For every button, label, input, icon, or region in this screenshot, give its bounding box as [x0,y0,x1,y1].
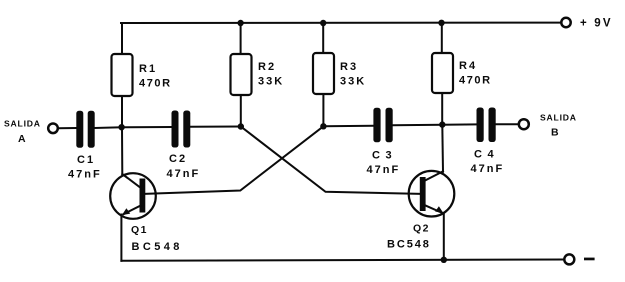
svg-text:C2: C2 [169,153,187,165]
wire Q2 emitter to ground rail [443,213,445,260]
svg-text:470R: 470R [459,75,492,87]
svg-text:R1: R1 [139,63,157,75]
svg-text:C4: C4 [474,149,499,161]
capacitor C2 [172,111,191,148]
svg-text:SALIDA: SALIDA [4,118,41,128]
terminal minus [564,254,574,264]
wire R1 bottom [121,96,123,128]
wire cross-coupling R2 to Q2 base [241,127,420,194]
wire R3 node to C3 [323,125,373,128]
svg-text:33K: 33K [340,76,366,88]
node R2/C2 junction [238,123,244,129]
wire R1 top [121,23,123,55]
svg-text:BC548: BC548 [132,241,183,253]
wire R2 top [240,23,242,55]
wire R4 bottom [441,93,443,125]
svg-text:B: B [551,127,559,139]
wire R2 bottom [240,95,242,127]
svg-text:C1: C1 [77,154,95,166]
resistor R4 [432,53,453,93]
svg-text:BC548: BC548 [387,239,431,251]
transistor Q1 [110,173,156,219]
svg-text:470R: 470R [139,78,172,90]
wire junction to C2 [122,126,172,128]
svg-text:SALIDA: SALIDA [540,113,577,123]
terminal +9V [561,18,570,27]
svg-text:47nF: 47nF [471,163,505,175]
terminal SALIDA B [519,119,529,129]
resistor R3 [313,53,334,94]
wire terminal A to C1 [58,127,76,129]
capacitor C4 [477,108,496,143]
capacitor C1 [76,111,94,148]
svg-text:Q2: Q2 [413,222,430,234]
svg-text:R4: R4 [459,60,477,72]
wire R4 top [441,23,443,54]
svg-text:A: A [18,133,26,145]
wire R3 bottom [322,94,324,126]
wire C2 to R2 node [190,126,241,128]
svg-text:C3: C3 [372,150,397,162]
resistor R2 [231,54,252,95]
wire Q1 collector column [121,127,123,174]
node R2 top [237,20,243,26]
wire cross-coupling R3 to Q1 base [145,126,323,194]
terminal SALIDA A [48,124,58,134]
wire top rail [121,22,562,24]
wire C1 to junction [95,126,122,129]
node Q2 emitter ground junction [441,257,447,263]
node R4 top [438,20,444,26]
capacitor C3 [373,108,392,143]
resistor R1 [112,54,133,96]
svg-text:Q1: Q1 [131,224,148,236]
svg-text:R3: R3 [340,61,358,73]
svg-text:+ 9V: + 9V [580,18,613,30]
svg-text:R2: R2 [258,61,276,73]
svg-text:47nF: 47nF [367,164,401,176]
svg-text:47nF: 47nF [68,169,102,181]
wire C3 to R4 node [393,124,443,127]
node R1/C1/C2 junction [118,124,124,130]
label minus [584,258,595,261]
svg-text:33K: 33K [258,76,284,88]
transistor Q2 [409,171,455,217]
node R3/C3 junction [320,123,326,129]
wire Q2 collector column [441,125,444,172]
wire R4 node to C4 [442,123,476,125]
wire R3 top [322,23,324,54]
wire Q1 emitter to ground rail [120,215,122,261]
node R3 top [320,20,326,26]
wire bottom rail [121,260,564,261]
node R4/C3/C4 junction [439,121,445,127]
svg-text:47nF: 47nF [167,168,201,180]
wire C4 to terminal B [496,123,519,125]
